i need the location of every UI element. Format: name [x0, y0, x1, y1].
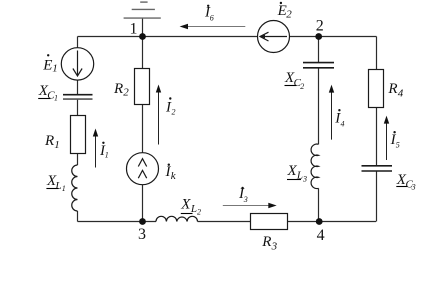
wire XL2 to R3: [198, 221, 252, 223]
voltage source E2: [258, 21, 290, 53]
wire middle branch node1 to R2: [142, 37, 144, 70]
svg-text:2: 2: [300, 82, 304, 91]
svg-text:2: 2: [316, 18, 324, 35]
resistor R1: [71, 116, 86, 154]
label I3: [238, 186, 248, 204]
svg-text:3: 3: [302, 175, 307, 184]
wire bottom left corner to node 3: [78, 221, 157, 223]
current source Ik: [127, 153, 159, 185]
resistor R4: [369, 70, 384, 108]
capacitor XC1: [63, 95, 93, 99]
inductor XL1: [72, 165, 78, 211]
arrow I3: [223, 203, 277, 208]
wire left branch top: corner to E1: [77, 37, 79, 48]
wire XC1 to R1: [77, 99, 79, 115]
wire top left from E1 branch to E2 circle: [78, 36, 258, 38]
wire R4 to XC3: [376, 108, 378, 166]
arrow I1: [93, 129, 98, 168]
svg-text:R: R: [113, 81, 123, 97]
wire R2 to Ik: [142, 105, 144, 153]
label I4: [334, 109, 344, 128]
node 2: [315, 33, 322, 40]
arrow I2: [156, 85, 161, 145]
svg-text:X: X: [287, 163, 298, 179]
svg-text:X: X: [180, 196, 191, 212]
capacitor XC2: [303, 63, 334, 68]
ground: [124, 2, 161, 36]
svg-text:2: 2: [123, 87, 129, 99]
label R1: [44, 133, 60, 151]
label I6: [204, 5, 214, 23]
node 3: [139, 218, 146, 225]
svg-text:3: 3: [271, 240, 278, 252]
inductor XL3: [311, 144, 318, 188]
label R2: [113, 81, 129, 99]
wire XC3 to bottom right corner: [376, 171, 378, 222]
node 1: [139, 33, 146, 40]
wire XL1 to bottom corner: [77, 211, 79, 222]
label R3: [261, 234, 277, 252]
label R4: [387, 81, 403, 99]
svg-text:6: 6: [210, 14, 214, 23]
svg-text:3: 3: [138, 226, 146, 243]
label XL2: [180, 196, 201, 216]
label Ik: [165, 164, 177, 183]
svg-text:1: 1: [62, 184, 66, 193]
svg-text:1: 1: [54, 93, 58, 102]
arrow I4: [329, 85, 334, 140]
wire E1 to XC1: [77, 80, 79, 95]
label XL3: [287, 163, 308, 184]
label I1: [99, 142, 109, 160]
svg-text:4: 4: [341, 119, 345, 128]
svg-text:1: 1: [54, 139, 60, 151]
svg-text:3: 3: [243, 195, 248, 204]
arrow I6: [180, 24, 246, 29]
wire R1 to XL1: [77, 154, 79, 166]
svg-text:R: R: [387, 81, 397, 97]
wire R3 to node4 and right corner: [288, 221, 376, 223]
label XC1: [38, 83, 58, 102]
svg-text:3: 3: [411, 183, 416, 192]
arrow I5: [384, 116, 389, 160]
label I2: [165, 97, 176, 116]
svg-text:E: E: [277, 3, 287, 19]
svg-text:5: 5: [396, 141, 400, 150]
svg-text:1: 1: [52, 63, 58, 75]
resistor R3: [251, 214, 288, 230]
svg-text:2: 2: [197, 208, 201, 217]
svg-text:E: E: [42, 57, 52, 73]
wire node2 to XC2: [318, 37, 320, 63]
wire XL3 to node4: [318, 188, 320, 221]
voltage source E1: [61, 48, 93, 80]
svg-text:R: R: [261, 234, 271, 250]
svg-text:1: 1: [105, 151, 109, 160]
label E2: [277, 2, 293, 21]
wire XC2 to XL3: [318, 68, 320, 145]
svg-text:L: L: [54, 180, 61, 192]
node 4: [316, 218, 323, 225]
svg-text:4: 4: [398, 87, 404, 99]
svg-text:R: R: [44, 133, 54, 149]
label XC2: [284, 70, 304, 91]
label XL1: [46, 173, 66, 193]
svg-text:4: 4: [317, 227, 325, 244]
label E1: [42, 54, 58, 74]
inductor XL2: [156, 216, 198, 221]
capacitor XC3: [362, 166, 393, 171]
svg-text:2: 2: [286, 9, 292, 21]
label XC3: [396, 172, 416, 192]
label I5: [390, 131, 400, 150]
wire right branch corner to R4: [376, 37, 378, 70]
svg-text:2: 2: [172, 108, 176, 117]
wire top right from E2 circle to right corner: [290, 36, 377, 38]
resistor R2: [135, 69, 150, 105]
svg-text:1: 1: [130, 21, 138, 38]
wire Ik to node 3: [142, 185, 144, 222]
